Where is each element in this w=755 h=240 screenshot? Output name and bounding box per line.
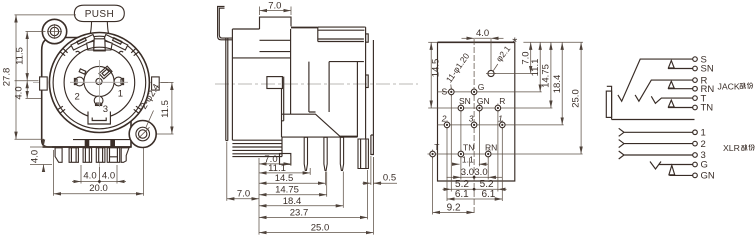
svg-text:1: 1 xyxy=(701,128,706,139)
outer circle xyxy=(49,33,149,133)
leg E xyxy=(107,148,120,163)
body bottom inner line xyxy=(73,139,130,141)
right dim chain xyxy=(520,42,583,154)
col GN xyxy=(478,111,480,166)
dim 4.0 top xyxy=(462,28,504,39)
wire S xyxy=(618,59,693,101)
svg-text:4.0: 4.0 xyxy=(30,150,41,163)
FRONT VIEW xyxy=(2,5,174,196)
svg-text:2: 2 xyxy=(441,114,447,124)
bayonet ticks bottom-right xyxy=(134,106,142,113)
dim 14.5 left xyxy=(428,42,441,108)
row phi2.1 ext xyxy=(494,73,532,75)
svg-text:4.0: 4.0 xyxy=(14,86,25,99)
svg-text:11.1: 11.1 xyxy=(530,59,541,77)
leg wedge left xyxy=(55,148,62,163)
break contact RN xyxy=(668,81,674,88)
dim 9.2 xyxy=(433,202,475,213)
phi2.1 leader xyxy=(493,64,498,71)
outline sides/bottom xyxy=(438,42,515,181)
svg-text:XLR: XLR xyxy=(723,143,740,153)
tab slot left xyxy=(85,140,90,147)
svg-text:1.1: 1.1 xyxy=(462,154,474,164)
jack hole bump xyxy=(267,77,283,89)
col RN xyxy=(487,157,489,180)
wire 2 xyxy=(619,140,693,148)
front foot xyxy=(280,154,291,165)
label XLR part xyxy=(723,143,754,153)
screw bottom-right xyxy=(136,127,150,141)
svg-text:6.1: 6.1 xyxy=(481,189,495,200)
svg-text:23.7: 23.7 xyxy=(290,207,309,218)
body mid bottom xyxy=(282,62,358,137)
dim 4.0 bottom left vertical xyxy=(30,140,53,173)
svg-text:G: G xyxy=(478,82,485,92)
leg D xyxy=(96,148,105,163)
svg-text:14.5: 14.5 xyxy=(275,173,294,184)
wire SN xyxy=(668,68,693,70)
svg-text:TN: TN xyxy=(701,103,714,114)
pad T xyxy=(430,150,436,159)
svg-text:20.0: 20.0 xyxy=(89,183,108,194)
pad GN xyxy=(477,104,483,113)
row S/G xyxy=(438,91,542,93)
col S xyxy=(450,95,452,192)
socket pin 2 xyxy=(74,77,84,86)
svg-text:27.8: 27.8 xyxy=(2,68,13,87)
dim 11.1 xyxy=(259,172,310,174)
svg-text:SN: SN xyxy=(701,64,714,75)
sleeve wire xyxy=(612,119,695,121)
break contact GN xyxy=(669,165,675,175)
top band thick xyxy=(291,27,318,29)
wire R xyxy=(635,80,693,101)
bump left on inner ring xyxy=(76,51,81,53)
pad RN xyxy=(485,150,491,159)
side bottom dim chain xyxy=(259,154,373,235)
dim 6.1 6.1 xyxy=(447,189,502,200)
svg-text:3.0: 3.0 xyxy=(474,167,487,178)
mounting ear top-left xyxy=(42,19,66,43)
centerline vertical xyxy=(98,19,100,182)
bump right on inner ring xyxy=(119,51,124,53)
mounting ear bottom-right xyxy=(129,121,156,148)
dim 27.8 xyxy=(2,15,77,139)
ring r46 xyxy=(53,36,146,129)
pad SN xyxy=(458,104,464,113)
wire 1 xyxy=(619,128,693,136)
dim 4.0 4.0 bottom xyxy=(72,165,126,184)
dim 23.7 xyxy=(259,216,368,218)
pin 1 xyxy=(304,137,307,170)
pad S xyxy=(449,87,455,96)
dim 7.0 xyxy=(259,163,287,165)
svg-text:18.4: 18.4 xyxy=(552,75,563,94)
flat leg right xyxy=(358,139,368,169)
centerline horizontal xyxy=(33,82,168,84)
top band right xyxy=(318,27,365,41)
outline top edge xyxy=(438,41,515,43)
svg-text:6.1: 6.1 xyxy=(455,189,469,200)
right tab upper xyxy=(366,34,369,42)
body right edge xyxy=(364,27,365,140)
latch wing left xyxy=(71,35,95,51)
terminal 3 xyxy=(693,153,698,158)
terminal RN xyxy=(693,86,698,91)
SIDE VIEW xyxy=(215,0,418,234)
terminal G xyxy=(693,162,698,167)
push tab stem xyxy=(89,18,109,40)
svg-text:4.0: 4.0 xyxy=(102,171,115,182)
svg-text:3: 3 xyxy=(469,114,474,124)
right key notch xyxy=(152,77,160,90)
pin 3 xyxy=(340,137,343,170)
socket pin 3 xyxy=(94,96,103,105)
svg-text:3.0: 3.0 xyxy=(461,167,474,178)
svg-text:3: 3 xyxy=(103,104,108,115)
row T/TN/RN xyxy=(428,153,583,155)
leg C xyxy=(83,148,92,163)
dim 20.0 xyxy=(54,148,144,196)
rear leg xyxy=(371,40,374,155)
dim 7.0 top xyxy=(260,0,292,15)
svg-text:*: * xyxy=(512,35,517,50)
svg-text:14.75: 14.75 xyxy=(275,185,299,196)
body flange xyxy=(42,38,131,148)
dim 7.0 left xyxy=(227,142,259,201)
svg-text:JACK: JACK xyxy=(718,81,740,91)
col 2 xyxy=(446,128,448,201)
break contact SN xyxy=(668,61,674,68)
body top edge xyxy=(232,28,259,30)
jack bushing body xyxy=(606,91,611,117)
internal verticals xyxy=(282,29,316,121)
PCB VIEW xyxy=(428,28,584,215)
terminal TN xyxy=(693,105,698,110)
col R xyxy=(497,111,499,192)
svg-text:11.5: 11.5 xyxy=(15,47,26,65)
dim 14.5 xyxy=(259,182,326,184)
svg-text:PUSH: PUSH xyxy=(85,9,114,20)
svg-text:25.0: 25.0 xyxy=(311,222,330,233)
latch side piece right xyxy=(105,41,112,50)
latch block xyxy=(94,39,105,50)
screw top-left xyxy=(47,24,62,39)
wire RN xyxy=(668,88,693,90)
col SN/TN xyxy=(460,111,462,180)
dim 14.75 xyxy=(259,194,327,196)
label JACK part xyxy=(718,81,753,91)
inner circle r35 xyxy=(64,47,135,118)
dim 5.2 5.2 xyxy=(443,179,507,191)
svg-text:2: 2 xyxy=(701,139,706,150)
row 2/3/1 xyxy=(438,124,564,126)
latch side piece left xyxy=(87,41,94,50)
dim 4.0 left xyxy=(14,81,42,100)
break contact TN xyxy=(668,100,674,107)
svg-text:TN: TN xyxy=(463,142,474,152)
terminal 2 xyxy=(693,141,698,146)
wire TN xyxy=(668,107,693,109)
svg-text:14.75: 14.75 xyxy=(541,64,552,88)
pad 1 xyxy=(500,120,506,129)
dim 0.5 right xyxy=(362,156,397,185)
panel clip xyxy=(218,7,233,40)
svg-text:S: S xyxy=(442,87,448,97)
jack tower xyxy=(260,17,292,52)
left key notch xyxy=(40,77,48,90)
dim 25.0 xyxy=(259,232,373,234)
svg-text:4.0: 4.0 xyxy=(83,171,96,182)
internal line A xyxy=(232,57,290,59)
dim 18.4 xyxy=(259,205,343,207)
svg-text:25.0: 25.0 xyxy=(571,89,582,108)
dim 11.5 right xyxy=(157,83,174,135)
col 1 xyxy=(501,128,503,201)
row SN/GN/R xyxy=(428,107,552,109)
flat leg inner lines xyxy=(361,139,366,169)
pad 3 xyxy=(471,120,477,129)
svg-text:G: G xyxy=(701,160,708,171)
leg B xyxy=(69,148,78,163)
svg-text:R: R xyxy=(499,96,505,106)
bayonet ticks top-left xyxy=(60,48,68,56)
leader 2-phi2.4 xyxy=(146,111,154,129)
leader 11-phi1.20 xyxy=(450,85,453,90)
latch wing right slot xyxy=(113,38,122,45)
svg-text:φ2.1: φ2.1 xyxy=(494,44,513,64)
terminal 1 xyxy=(693,130,698,135)
wire 3 xyxy=(619,151,693,159)
pin 2 xyxy=(324,137,327,170)
svg-text:18.4: 18.4 xyxy=(283,196,302,207)
col 1.1 aux xyxy=(469,158,471,167)
svg-text:0.5: 0.5 xyxy=(383,173,396,184)
svg-text:11.5: 11.5 xyxy=(160,100,171,118)
dim 3.0 3.0 xyxy=(447,167,503,179)
socket pin 1 xyxy=(114,77,124,86)
centerline overlay vertical xyxy=(98,60,100,107)
bayonet ticks top-right xyxy=(131,48,139,56)
svg-text:4.0: 4.0 xyxy=(476,28,489,39)
phi2.1 hole xyxy=(486,70,496,76)
svg-text:SN: SN xyxy=(459,96,471,106)
svg-text:2: 2 xyxy=(75,92,80,103)
svg-text:7.0: 7.0 xyxy=(237,189,250,200)
terminal R xyxy=(693,78,698,83)
svg-text:7.0: 7.0 xyxy=(268,0,281,11)
center column dashed xyxy=(473,39,475,215)
svg-text:GN: GN xyxy=(701,171,715,182)
front stack hatch xyxy=(232,137,282,157)
insert notch top-left xyxy=(79,69,86,74)
pad 2 xyxy=(444,120,450,129)
body front face xyxy=(231,29,233,140)
pad TN xyxy=(458,150,464,159)
col phi2.1 xyxy=(490,39,492,70)
dim 11.5 left xyxy=(15,32,46,81)
svg-text:9.2: 9.2 xyxy=(447,202,461,213)
insert bottom slot xyxy=(88,112,110,125)
panel plate edge xyxy=(226,39,228,141)
body bottom edge xyxy=(43,146,131,148)
terminal S xyxy=(693,57,698,62)
wire T xyxy=(651,96,692,103)
leg wedge right xyxy=(121,148,129,163)
pad R xyxy=(495,104,501,113)
latch block bottom xyxy=(93,50,106,52)
svg-text:T: T xyxy=(434,142,439,152)
svg-text:1: 1 xyxy=(118,89,123,100)
dim 1.1 xyxy=(452,154,488,164)
pad G xyxy=(471,87,477,96)
tab slot right xyxy=(110,140,115,147)
bayonet ticks bottom-left xyxy=(57,106,65,113)
wire GN xyxy=(669,174,692,176)
center hole xyxy=(96,78,102,84)
centerline xyxy=(215,83,418,85)
insert cutout top-right xyxy=(99,66,112,79)
jack bushing xyxy=(607,86,612,119)
centerline overlay horizontal xyxy=(70,81,128,83)
latch wing right xyxy=(104,35,128,51)
terminal SN xyxy=(693,66,698,71)
latch wing left slot xyxy=(77,38,86,45)
terminal GN xyxy=(693,173,698,178)
svg-text:GN: GN xyxy=(477,96,490,106)
terminal T xyxy=(693,96,698,101)
SCHEMATIC xyxy=(606,54,754,181)
internal line B xyxy=(329,62,364,112)
svg-text:RN: RN xyxy=(485,142,497,152)
insert disc xyxy=(84,66,114,96)
right tab lower xyxy=(366,75,369,88)
svg-text:14.5: 14.5 xyxy=(431,59,442,78)
col T xyxy=(432,157,434,215)
push tab oval xyxy=(74,5,124,21)
svg-text:11-φ1.20: 11-φ1.20 xyxy=(444,51,472,85)
wire G with contact xyxy=(650,162,693,170)
svg-text:1: 1 xyxy=(498,114,503,124)
ext lines xyxy=(258,158,260,235)
